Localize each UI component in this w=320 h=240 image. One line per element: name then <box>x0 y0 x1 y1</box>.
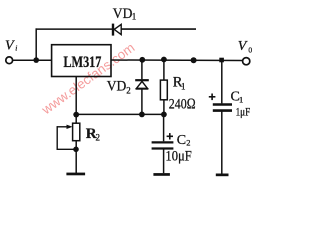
svg-text:2: 2 <box>96 133 101 143</box>
svg-text:240Ω: 240Ω <box>169 97 196 113</box>
wire C2 bottom to ground <box>163 149 165 174</box>
svg-text:C: C <box>177 133 186 148</box>
node VD2/ADJ <box>139 112 145 118</box>
svg-text:0: 0 <box>248 46 252 55</box>
node R2 wiper tie <box>73 147 79 153</box>
wire C1 bottom to ground <box>221 111 223 174</box>
resistor R1 <box>160 80 167 100</box>
node R1/ADJ <box>161 112 167 118</box>
svg-text:VD: VD <box>107 78 127 94</box>
wire up from input junction <box>35 28 37 60</box>
svg-text:VD: VD <box>113 6 133 22</box>
wire ADJ pin <box>75 77 77 115</box>
svg-text:1μF: 1μF <box>236 107 251 119</box>
wire ADJ node to R2 top <box>75 114 77 123</box>
svg-text:V: V <box>5 39 15 54</box>
wire ADJ line to C2 top <box>163 114 165 141</box>
wire R2 wiper loop <box>57 126 77 149</box>
svg-text:2: 2 <box>186 138 190 148</box>
wire VD2 to ADJ line <box>141 89 143 115</box>
ground (R2) <box>66 173 85 176</box>
svg-text:2: 2 <box>126 85 131 95</box>
wire R1 bottom to ADJ line <box>163 100 165 115</box>
wire R2 bottom to ground <box>75 141 77 173</box>
node out junction <box>191 57 197 63</box>
terminal Vi <box>6 57 13 64</box>
node ADJ <box>73 112 79 118</box>
terminal Vo <box>243 58 250 65</box>
wire output line <box>111 59 242 62</box>
node input junction <box>33 57 39 63</box>
svg-text:1: 1 <box>239 95 243 105</box>
wire input to LM317 <box>13 59 52 61</box>
svg-text:V: V <box>238 39 248 54</box>
svg-text:10μF: 10μF <box>165 148 191 164</box>
svg-text:1: 1 <box>132 12 137 22</box>
potentiometer R2 <box>57 123 80 141</box>
wire top line right of VD1 <box>121 28 196 30</box>
svg-text:LM317: LM317 <box>63 54 101 71</box>
wire output line to VD2 anode <box>141 60 143 79</box>
diode VD1 <box>113 24 121 36</box>
svg-text:i: i <box>15 44 17 53</box>
wire output line to R1 top <box>163 60 165 80</box>
wire top line left of VD1 <box>36 28 113 30</box>
IC U1 LM317 <box>52 45 111 77</box>
ground (C1) <box>216 174 229 177</box>
wire output line to C1 top <box>221 61 223 104</box>
svg-text:1: 1 <box>181 82 186 92</box>
watermark <box>38 40 137 118</box>
ground (C2) <box>153 173 170 176</box>
capacitor C2 <box>152 142 174 148</box>
wire ADJ line <box>76 113 164 115</box>
node C1/out <box>219 58 224 63</box>
node R1/out <box>161 57 167 63</box>
node VD2/out <box>139 57 145 63</box>
plus C1 <box>209 94 216 101</box>
plus C2 <box>167 133 173 139</box>
diode VD2 <box>135 80 149 89</box>
capacitor C1 <box>213 105 232 111</box>
